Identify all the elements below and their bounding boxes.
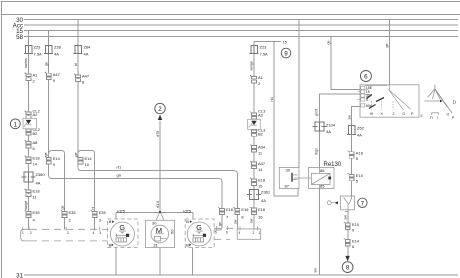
svg-text:6: 6 <box>226 231 228 235</box>
svg-text:O: O <box>447 113 450 117</box>
svg-text:rd25: rd25 <box>117 208 126 213</box>
svg-text:6: 6 <box>364 74 368 81</box>
svg-text:ge: ge <box>61 206 65 210</box>
svg-text:Z64: Z64 <box>84 45 92 50</box>
svg-text:E18: E18 <box>33 189 41 194</box>
svg-text:15: 15 <box>283 40 288 45</box>
svg-text:7.5A: 7.5A <box>260 52 269 57</box>
svg-text:8: 8 <box>346 265 350 272</box>
svg-text:sw: sw <box>343 215 347 220</box>
svg-text:B2: B2 <box>33 131 39 136</box>
svg-text:14: 14 <box>33 162 38 167</box>
svg-text:E35: E35 <box>69 210 77 215</box>
svg-text:1: 1 <box>14 121 18 128</box>
svg-text:rt: rt <box>91 207 95 209</box>
svg-text:E10: E10 <box>352 222 360 227</box>
svg-text:Z361: Z361 <box>261 190 271 195</box>
svg-text:14: 14 <box>258 167 263 172</box>
svg-text:2: 2 <box>253 231 255 235</box>
svg-text:rt1: rt1 <box>117 165 122 170</box>
svg-text:O: O <box>403 112 406 116</box>
svg-text:ge: ge <box>74 153 78 157</box>
svg-text:Z28: Z28 <box>54 45 62 50</box>
svg-text:ge: ge <box>327 41 331 45</box>
svg-text:7.5A: 7.5A <box>34 52 43 57</box>
svg-text:gn: gn <box>117 173 121 178</box>
svg-text:30: 30 <box>152 221 157 226</box>
svg-text:E18: E18 <box>33 156 41 161</box>
svg-text:ge: ge <box>218 222 222 226</box>
svg-text:85: 85 <box>320 183 325 188</box>
svg-text:rt1.0: rt1.0 <box>156 201 160 208</box>
svg-text:A34: A34 <box>258 144 266 149</box>
svg-text:Z23: Z23 <box>260 45 268 50</box>
svg-text:sw: sw <box>250 218 254 223</box>
svg-text:4: 4 <box>93 231 95 235</box>
svg-text:E16: E16 <box>258 207 266 212</box>
svg-text:5: 5 <box>215 231 217 235</box>
svg-text:31: 31 <box>16 273 23 278</box>
svg-text:4A: 4A <box>84 52 89 57</box>
svg-text:Z62: Z62 <box>357 125 365 130</box>
svg-text:Z23: Z23 <box>34 45 42 50</box>
svg-text:sw: sw <box>233 219 237 224</box>
svg-text:Z360: Z360 <box>36 172 46 177</box>
svg-text:rt70: rt70 <box>156 131 160 137</box>
svg-text:ws/ge: ws/ge <box>250 61 254 70</box>
svg-text:31: 31 <box>153 243 158 248</box>
svg-text:E14: E14 <box>53 156 61 161</box>
svg-text:I: I <box>437 116 438 120</box>
svg-text:A1: A1 <box>33 73 39 78</box>
svg-text:⟨⟩: ⟨⟩ <box>453 100 457 105</box>
svg-text:50: 50 <box>170 229 175 234</box>
svg-text:16: 16 <box>258 214 263 219</box>
svg-text:30: 30 <box>286 167 291 172</box>
svg-text:2: 2 <box>30 231 32 235</box>
svg-text:E35: E35 <box>33 210 41 215</box>
svg-text:4: 4 <box>239 231 241 235</box>
svg-text:A2: A2 <box>258 112 264 117</box>
svg-text:4A: 4A <box>54 52 59 57</box>
svg-text:bl: bl <box>74 63 78 66</box>
svg-text:ge: ge <box>45 62 49 66</box>
svg-text:E14: E14 <box>85 156 93 161</box>
svg-text:E18: E18 <box>258 178 266 183</box>
svg-text:2: 2 <box>158 106 162 113</box>
svg-text:3: 3 <box>67 231 69 235</box>
svg-text:9: 9 <box>284 51 288 58</box>
svg-text:B2: B2 <box>258 131 264 136</box>
svg-text:Re130: Re130 <box>324 162 342 168</box>
svg-text:sw: sw <box>347 115 351 120</box>
svg-text:rt4: rt4 <box>270 97 274 101</box>
svg-text:E14: E14 <box>352 238 360 243</box>
svg-text:A1: A1 <box>258 75 264 80</box>
svg-text:ge: ge <box>44 153 48 157</box>
svg-text:III: III <box>370 112 373 116</box>
svg-text:rd25: rd25 <box>183 208 192 213</box>
svg-text:2: 2 <box>393 112 395 116</box>
svg-text:sw/ge: sw/ge <box>24 201 28 210</box>
svg-text:7: 7 <box>361 200 365 207</box>
svg-text:4A: 4A <box>326 129 331 134</box>
svg-text:E35: E35 <box>99 210 107 215</box>
svg-text:rt/gn: rt/gn <box>315 148 319 155</box>
svg-text:A47: A47 <box>53 72 61 77</box>
svg-text:A47: A47 <box>258 161 266 166</box>
svg-text:E16: E16 <box>226 207 234 212</box>
svg-text:1: 1 <box>22 231 24 235</box>
svg-text:87: 87 <box>285 184 290 189</box>
svg-text:gn/rt: gn/rt <box>315 109 319 116</box>
svg-text:4A: 4A <box>36 181 41 186</box>
svg-text:4A: 4A <box>357 133 362 138</box>
svg-text:A8: A8 <box>33 140 39 145</box>
svg-text:86: 86 <box>320 168 325 173</box>
svg-text:58: 58 <box>16 34 23 41</box>
svg-text:5: 5 <box>100 231 102 235</box>
svg-text:15: 15 <box>258 184 263 189</box>
svg-text:sw: sw <box>314 268 318 273</box>
svg-text:4A: 4A <box>261 198 266 203</box>
svg-text:A2: A2 <box>33 112 39 117</box>
svg-text:E10: E10 <box>356 173 364 178</box>
svg-text:A47: A47 <box>82 74 90 79</box>
svg-text:ge: ge <box>385 44 389 48</box>
svg-text:Z104: Z104 <box>326 123 336 128</box>
svg-text:E16: E16 <box>241 207 249 212</box>
svg-text:Π: Π <box>430 116 433 120</box>
svg-text:II: II <box>421 114 423 118</box>
svg-text:sw/ws: sw/ws <box>24 58 28 68</box>
svg-text:1: 1 <box>259 231 261 235</box>
svg-text:A16: A16 <box>356 151 364 156</box>
svg-text:50a: 50a <box>366 104 372 108</box>
svg-text:10: 10 <box>85 162 90 167</box>
